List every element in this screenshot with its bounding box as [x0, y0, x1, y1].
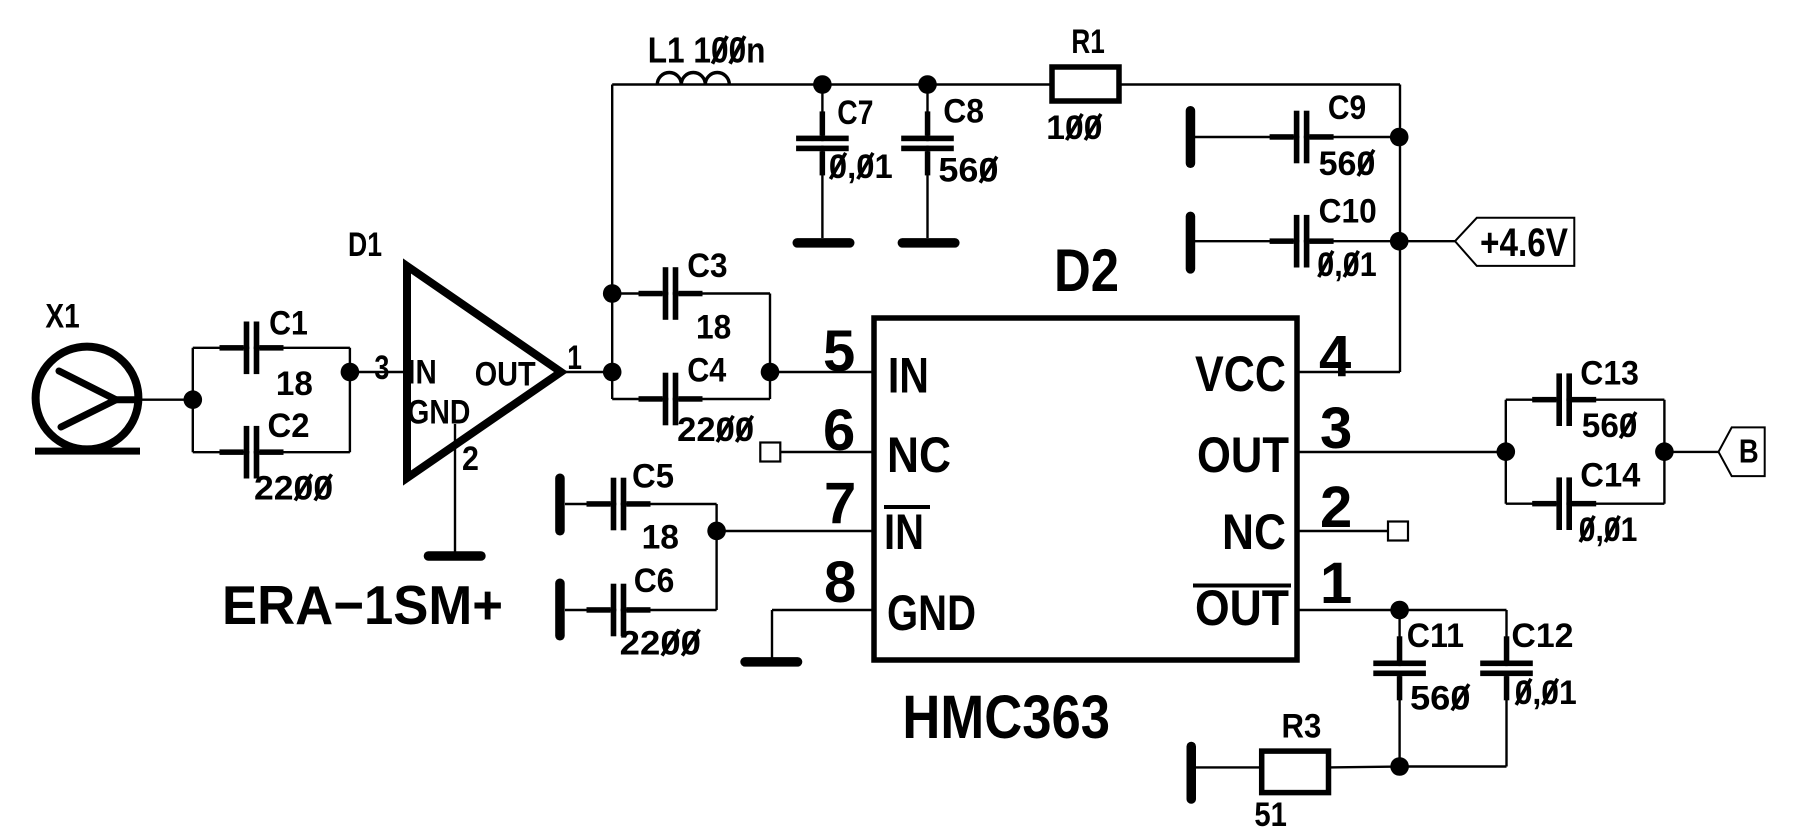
wire pin 4	[1297, 371, 1400, 373]
capacitor C6	[587, 584, 651, 637]
wire	[193, 451, 350, 453]
capacitor C7	[796, 111, 849, 175]
svg-text:VCC: VCC	[1195, 346, 1286, 402]
svg-text:C8: C8	[943, 93, 984, 131]
wire	[1195, 240, 1400, 242]
capacitor C12	[1480, 636, 1533, 700]
svg-text:X1: X1	[45, 298, 79, 336]
wire	[1400, 240, 1455, 242]
wire	[1196, 766, 1262, 768]
wire	[1506, 399, 1665, 401]
svg-text:4: 4	[1319, 324, 1351, 389]
svg-text:GND: GND	[407, 394, 470, 432]
svg-text:C10: C10	[1319, 193, 1377, 231]
svg-text:7: 7	[824, 471, 856, 536]
wire	[769, 294, 771, 400]
node R3 C11 junction	[1390, 757, 1409, 776]
wire	[715, 504, 717, 610]
wire	[1664, 451, 1718, 453]
inductor L1	[657, 73, 729, 85]
svg-text:1: 1	[1320, 551, 1352, 616]
NC pad square pin 6	[760, 443, 780, 462]
wire	[612, 83, 1052, 85]
wire	[1505, 400, 1507, 504]
wire	[926, 85, 928, 239]
ground bar of C8	[898, 238, 960, 248]
ground bar of C7	[793, 238, 855, 248]
wire	[821, 85, 823, 239]
resistor R1	[1052, 67, 1119, 101]
svg-text:51: 51	[1254, 796, 1287, 832]
svg-text:2: 2	[462, 440, 479, 478]
wire pin 6	[780, 451, 874, 453]
svg-text:IN: IN	[888, 348, 929, 404]
svg-text:OUT: OUT	[475, 356, 536, 394]
node C8 top junction	[918, 75, 937, 94]
capacitor C8	[901, 111, 954, 175]
wire	[193, 347, 350, 349]
NC pad square pin 2	[1388, 522, 1408, 541]
wire	[1399, 85, 1401, 373]
wire	[1052, 83, 1400, 85]
wire GND of D1	[454, 424, 456, 552]
capacitor C14	[1532, 477, 1596, 530]
wire	[561, 371, 612, 373]
node pin7 junction	[707, 522, 726, 541]
svg-text:C5: C5	[632, 457, 674, 495]
node pin3 output junction	[1497, 442, 1516, 461]
capacitor C13	[1532, 373, 1596, 426]
capacitor C4	[639, 373, 703, 426]
svg-text:C12: C12	[1511, 617, 1573, 655]
node B output junction	[1655, 442, 1674, 461]
node C10 VCC junction	[1390, 232, 1409, 251]
connector X1 symbol	[35, 347, 140, 455]
wire	[1400, 765, 1507, 767]
electrode bar of R3	[1187, 742, 1197, 804]
amplifier D1 triangle	[407, 266, 561, 478]
svg-text:3: 3	[374, 349, 389, 387]
svg-text:D2: D2	[1054, 237, 1119, 304]
svg-text:NC: NC	[887, 427, 951, 483]
output flag B	[1719, 427, 1765, 476]
svg-text:C4: C4	[687, 352, 726, 390]
wire pin 3 of D1	[350, 371, 404, 373]
wire	[565, 609, 717, 611]
wire	[192, 348, 194, 452]
wire	[1329, 765, 1400, 768]
svg-text:D1: D1	[348, 226, 382, 264]
wire	[612, 292, 770, 294]
node D1 output junction	[603, 363, 622, 382]
svg-text:R3: R3	[1282, 708, 1322, 746]
IC D2 body	[874, 318, 1297, 660]
wire	[1195, 136, 1400, 138]
svg-text:18: 18	[276, 365, 313, 403]
wire	[1505, 610, 1507, 767]
svg-text:C9: C9	[1328, 89, 1366, 127]
wire	[140, 399, 193, 401]
svg-text:NC: NC	[1222, 504, 1286, 560]
wire	[349, 348, 351, 452]
svg-text:18: 18	[642, 518, 679, 556]
svg-text:8: 8	[824, 550, 856, 615]
svg-text:OUT: OUT	[1197, 427, 1289, 483]
wire	[565, 503, 717, 505]
node pin1 C11 junction	[1390, 601, 1409, 620]
node C7 top junction	[813, 75, 832, 94]
wire pin 8	[772, 609, 874, 611]
svg-text:18: 18	[696, 309, 731, 347]
wire pin 5	[770, 371, 874, 373]
svg-text:C7: C7	[837, 94, 873, 132]
svg-text:GND: GND	[887, 585, 976, 641]
capacitor C5	[587, 478, 651, 531]
svg-text:C11: C11	[1407, 617, 1464, 655]
svg-text:R1: R1	[1071, 23, 1104, 61]
svg-text:HMC363: HMC363	[902, 683, 1110, 751]
node C3 left junction	[603, 284, 622, 303]
capacitor C1	[220, 322, 284, 375]
capacitor C10	[1270, 215, 1334, 268]
wire	[1398, 610, 1400, 767]
electrode bar of C9	[1186, 106, 1196, 168]
wire pin 2	[1297, 530, 1388, 532]
svg-text:C6: C6	[634, 562, 675, 600]
wire	[1506, 503, 1665, 505]
svg-text:5: 5	[823, 319, 855, 384]
node pin5 junction	[761, 363, 780, 382]
svg-text:C2: C2	[268, 407, 310, 445]
ground bar of pin 8	[740, 657, 802, 667]
wire pin 7	[717, 530, 874, 532]
electrode bar of C10	[1186, 212, 1196, 274]
svg-text:B: B	[1739, 433, 1759, 470]
supply flag +4.6V	[1455, 218, 1574, 266]
resistor R3	[1262, 751, 1329, 793]
svg-text:C1: C1	[269, 305, 308, 343]
capacitor C2	[220, 426, 284, 479]
capacitor C11	[1373, 636, 1426, 700]
svg-text:+4.6V: +4.6V	[1480, 221, 1568, 265]
svg-text:ERA−1SM+: ERA−1SM+	[222, 574, 503, 636]
electrode bar of C5	[555, 474, 565, 536]
svg-text:IN: IN	[884, 504, 924, 560]
electrode bar of C6	[555, 579, 565, 641]
capacitor C3	[639, 267, 703, 320]
ground bar of D1	[424, 551, 486, 561]
svg-text:L1 100n: L1 100n	[648, 30, 766, 71]
svg-text:C13: C13	[1580, 355, 1639, 393]
wire pin 1	[1297, 609, 1507, 611]
svg-text:C3: C3	[687, 247, 727, 285]
capacitor C9	[1270, 111, 1334, 164]
node D1 input junction	[341, 363, 360, 382]
wire pin 3	[1297, 451, 1506, 453]
node C9 VCC junction	[1390, 128, 1409, 147]
svg-text:6: 6	[823, 398, 855, 463]
wire	[611, 85, 613, 400]
svg-text:IN: IN	[407, 354, 437, 392]
wire	[1663, 400, 1665, 504]
svg-text:C14: C14	[1580, 457, 1640, 495]
svg-text:OUT: OUT	[1195, 580, 1289, 636]
node X1 output junction	[184, 390, 203, 409]
wire	[612, 398, 770, 400]
